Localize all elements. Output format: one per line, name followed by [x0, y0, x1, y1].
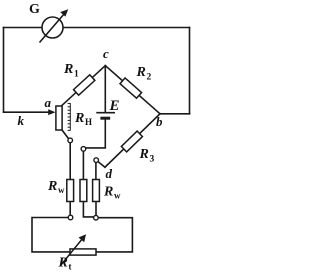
svg-text:1: 1	[74, 70, 79, 80]
svg-text:R: R	[103, 185, 113, 200]
wire right loop to Rt	[96, 218, 132, 252]
svg-text:H: H	[85, 117, 92, 127]
wire RH bottom to terminal A	[62, 130, 69, 139]
wire b to right vertical	[160, 113, 190, 115]
wire c to battery	[104, 66, 106, 112]
svg-text:w: w	[58, 185, 65, 195]
battery E	[96, 113, 115, 119]
terminal C	[94, 158, 99, 163]
terminal A	[68, 138, 73, 143]
svg-text:R: R	[136, 65, 146, 80]
svg-text:R: R	[58, 256, 68, 271]
svg-text:R: R	[139, 147, 149, 162]
svg-text:k: k	[18, 113, 25, 128]
svg-text:R: R	[74, 111, 84, 126]
wire left vertical	[3, 28, 5, 113]
wire Rw3 to bottom-right plug	[95, 202, 97, 216]
plug left	[68, 215, 73, 220]
svg-text:c: c	[103, 46, 109, 61]
svg-text:w: w	[114, 191, 121, 201]
terminal B	[81, 147, 86, 152]
svg-text:b: b	[156, 114, 163, 129]
svg-text:2: 2	[147, 73, 152, 83]
svg-text:R: R	[47, 179, 57, 194]
svg-text:d: d	[106, 166, 113, 181]
resistor R3 body	[121, 131, 142, 152]
resistor R1 body	[74, 75, 95, 95]
wire k lead to RH wiper	[4, 111, 50, 113]
wire battery to terminal B	[86, 119, 106, 148]
wire Rw1 to bottom-left plug	[69, 202, 71, 216]
rheostat RH body	[56, 106, 62, 130]
galvanometer G	[40, 9, 69, 42]
wire terminal A down to Rw1	[69, 143, 71, 180]
svg-text:R: R	[63, 62, 73, 77]
svg-text:3: 3	[150, 155, 155, 165]
resistor R2 body	[120, 78, 142, 98]
plug right	[94, 215, 99, 220]
wire right vertical	[189, 28, 191, 114]
rheostat RH winding comb	[68, 103, 71, 131]
resistor Rw1 body	[67, 180, 74, 202]
svg-text:E: E	[109, 98, 120, 114]
wire terminal B down to Rw2	[82, 151, 84, 180]
svg-text:a: a	[45, 95, 52, 110]
wire top bus	[4, 27, 190, 29]
wire R3 branch b-d	[105, 114, 160, 167]
wire d to terminal C	[98, 162, 105, 168]
svg-text:t: t	[69, 262, 72, 272]
wire R2 branch c-b	[105, 66, 160, 114]
thermometer resistor Rt body	[70, 249, 96, 255]
wire R1 branch a-c	[62, 66, 106, 106]
wire Rw2 elbow to bottom-right plug	[83, 202, 93, 217]
Rt variable arrow	[61, 239, 83, 266]
svg-text:G: G	[29, 2, 40, 17]
wire terminal C down to Rw3	[95, 162, 97, 179]
resistor Rw3 body	[93, 180, 100, 202]
arrowhead k wiper	[48, 109, 55, 115]
resistor Rw2 body	[80, 180, 87, 202]
wire left loop to Rt	[32, 218, 70, 252]
